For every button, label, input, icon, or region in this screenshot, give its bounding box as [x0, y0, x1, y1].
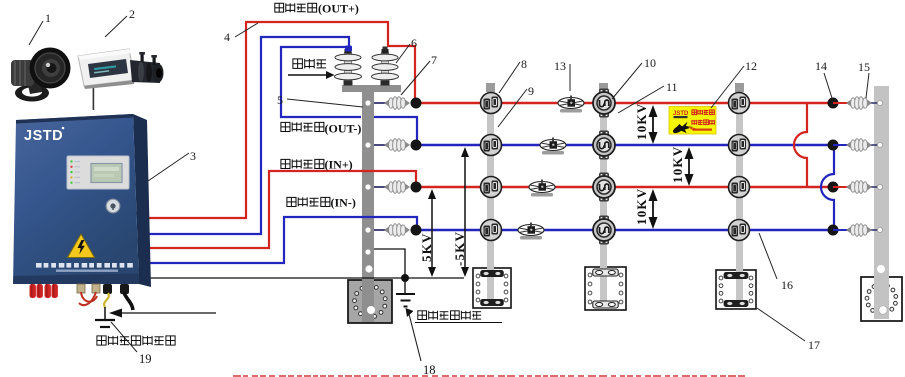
svg-text:(OUT+): (OUT+): [318, 2, 359, 16]
round insulator post3 y230 (10/11): [593, 216, 615, 245]
svg-text:8: 8: [521, 57, 527, 71]
svg-text:14: 14: [815, 59, 827, 73]
wire tensioner y187 (13): [529, 180, 555, 197]
left arrester blue terminal cap: [345, 46, 352, 52]
control box keypad unit (3): [13, 114, 151, 287]
post 2 base fittings: [480, 270, 504, 306]
post 1 ground stub: [374, 249, 405, 278]
label 7 leader: [401, 53, 437, 95]
warning sign 电子围栏禁止攀爬 (12): [669, 107, 716, 135]
svg-text:JSTD: JSTD: [24, 128, 63, 144]
text 弱电及通讯接地: [97, 336, 175, 345]
speaker drop line: [93, 88, 95, 110]
clamp insulator post2 y145 (8/9): [481, 135, 502, 156]
wire fence row 3 (IN+ red): [416, 186, 833, 189]
insulator at post5 row1 (15): [846, 97, 872, 110]
wire OUT- from box to left arrester top: [146, 37, 349, 234]
insulator at post5 row3 (15): [846, 181, 872, 194]
wire stub post1 row1: [374, 102, 386, 104]
svg-text:5: 5: [277, 93, 283, 107]
svg-text:3: 3: [190, 149, 196, 163]
svg-text:13: 13: [554, 59, 566, 73]
junction dot at ground: [401, 274, 409, 282]
wire tensioner y103 (13): [558, 96, 584, 113]
post 4 base fittings: [724, 272, 749, 307]
wire fence row 1 (OUT+ red): [416, 102, 833, 105]
wire tensioner y145 (13): [540, 138, 566, 155]
label 17 leader: [757, 308, 820, 352]
wire stub post1 row3: [374, 186, 386, 188]
label 5 leader: [277, 93, 363, 107]
svg-text:-5KV: -5KV: [452, 231, 467, 266]
junction dot post1 row3: [411, 182, 422, 193]
ground wire from box along bottom: [146, 277, 464, 279]
text 避雷器: [293, 59, 326, 69]
label 9 leader: [498, 84, 534, 127]
text 一路输入: [281, 159, 324, 168]
svg-text:10KV: 10KV: [634, 103, 649, 140]
label 8 leader: [499, 57, 527, 93]
svg-text:16: 16: [781, 278, 793, 292]
fence post 5: [874, 86, 889, 319]
text 二路输出: [281, 122, 324, 131]
termination dot post5 row3 (14): [828, 182, 839, 193]
arrow pointing to earth: [109, 309, 216, 318]
label 10 leader: [612, 56, 656, 99]
wire OUT+ from box over top to row 1: [146, 22, 415, 218]
svg-text:19: 19: [139, 352, 152, 366]
fence post 3: [599, 83, 608, 308]
cctv camera (2): [78, 49, 164, 89]
fence post 2: [486, 83, 495, 306]
clamp insulator post4 y187: [729, 177, 750, 198]
post 4 base plate: [716, 270, 756, 309]
insulator on post1 row4 (7): [384, 224, 410, 237]
label 1 leader: [29, 11, 51, 45]
clamp insulator post2 y230 (8/9): [481, 220, 502, 241]
post 2 base plate: [473, 268, 511, 308]
round insulator post3 y103 (10/11): [593, 89, 615, 118]
svg-text:18: 18: [423, 363, 436, 377]
wire tensioner y230 (13): [518, 223, 544, 240]
label 11 leader: [618, 80, 678, 113]
svg-text:10KV: 10KV: [670, 146, 685, 183]
label 3 leader: [148, 149, 196, 181]
post 3 base plate: [585, 267, 626, 310]
svg-text:1: 1: [45, 11, 51, 25]
svg-text:5KV: 5KV: [419, 232, 434, 262]
arrester pointer arrow: [288, 71, 335, 79]
text 强电避雷接地: [418, 311, 481, 320]
leader 18 with arrowhead: [406, 308, 436, 377]
wire stub post1 row4: [374, 229, 386, 231]
arrow 10KV rows1-2: [649, 105, 658, 144]
text 二路输入: [287, 197, 330, 206]
wire IN- from box to row 4: [146, 217, 417, 263]
insulator on post1 row1 (7): [384, 97, 410, 110]
svg-text:7: 7: [431, 53, 437, 67]
round insulator post3 y145 (10/11): [593, 131, 615, 160]
wire stub post5 row1: [833, 102, 849, 104]
clamp insulator post2 y103 (8/9): [481, 93, 502, 114]
insulator on post1 row2 (7): [384, 139, 410, 152]
svg-text:11: 11: [666, 80, 678, 94]
junction dot post1 row4: [411, 225, 422, 236]
lightning arrester left (6): [335, 47, 362, 86]
underline: [415, 322, 502, 324]
label 12 leader: [711, 59, 757, 108]
svg-text:6: 6: [411, 36, 417, 50]
label 16 leader: [759, 233, 793, 292]
termination dot post5 row2 (14): [828, 140, 839, 151]
svg-text:(IN-): (IN-): [331, 196, 356, 210]
label 4 leader: [224, 23, 258, 44]
wire stub post5 row4: [833, 229, 849, 231]
text 一路输出: [275, 3, 317, 12]
svg-text:9: 9: [528, 84, 534, 98]
wire IN+ from box to row 3: [146, 171, 416, 248]
post 1 base plate: [348, 280, 392, 323]
fence post 4: [735, 83, 744, 307]
clamp insulator post4 y145: [729, 135, 750, 156]
junction dot post1 row1: [411, 98, 422, 109]
svg-text:12: 12: [745, 59, 757, 73]
lightning arrester right (6): [372, 47, 399, 86]
bottom red caption (clipped): [233, 375, 745, 377]
alarm speaker (1): [11, 48, 71, 102]
svg-text:17: 17: [808, 338, 820, 352]
label 2 leader: [105, 7, 135, 37]
svg-text:10: 10: [644, 56, 656, 70]
leader 19: [111, 322, 137, 352]
svg-text:(IN+): (IN+): [325, 158, 353, 172]
insulator on post1 row3 (7): [384, 181, 410, 194]
box terminals and cables: [30, 284, 134, 310]
post 5 base plate: [861, 277, 902, 321]
round insulator post3 y187 (10/11): [593, 173, 615, 202]
insulator at post5 row2 (15): [846, 139, 872, 152]
fence post 1 (main): [342, 85, 401, 322]
jumper red row1-row3 with hop over row2: [794, 103, 807, 187]
wire fence row 4 (IN- blue): [417, 229, 834, 232]
wire stub post5 row2: [833, 144, 849, 146]
wire stub post1 row2: [374, 144, 386, 146]
svg-text:(OUT-): (OUT-): [325, 122, 362, 136]
insulator at post5 row4 (15): [846, 224, 872, 237]
arrow 10KV rows3-4: [649, 189, 658, 229]
label 14 leader: [815, 59, 832, 98]
svg-text:15: 15: [858, 60, 870, 74]
termination dot post5 row4 (14): [828, 225, 839, 236]
clamp insulator post4 y230: [729, 220, 750, 241]
arrow -5KV (row2 to ground): [461, 147, 469, 277]
label 6 leader: [396, 36, 417, 63]
earth symbol (强电避雷接地): [396, 278, 415, 307]
clamp insulator post2 y187 (8/9): [481, 177, 502, 198]
svg-text:10KV: 10KV: [634, 188, 649, 225]
jumper blue row2-row4 with hop over row3: [821, 145, 834, 230]
wire stub post5 row3: [833, 186, 849, 188]
arrow 5KV (row3 to ground): [428, 189, 436, 277]
junction dot post1 row2: [411, 140, 422, 151]
label 15 leader: [858, 60, 870, 98]
wire fence row 2 (OUT- blue): [417, 144, 834, 147]
termination dot post5 row1 (14): [828, 98, 839, 109]
label 13 leader: [554, 59, 570, 91]
arrow 10KV rows2-3: [685, 147, 694, 186]
svg-text:2: 2: [129, 7, 135, 21]
earth symbol weak current (19): [95, 307, 115, 327]
wire from left arrester to row 2 (passes behind post 1): [281, 47, 361, 117]
post 3 base fittings: [593, 269, 618, 308]
svg-text:4: 4: [224, 30, 230, 44]
clamp insulator post4 y103: [729, 93, 750, 114]
